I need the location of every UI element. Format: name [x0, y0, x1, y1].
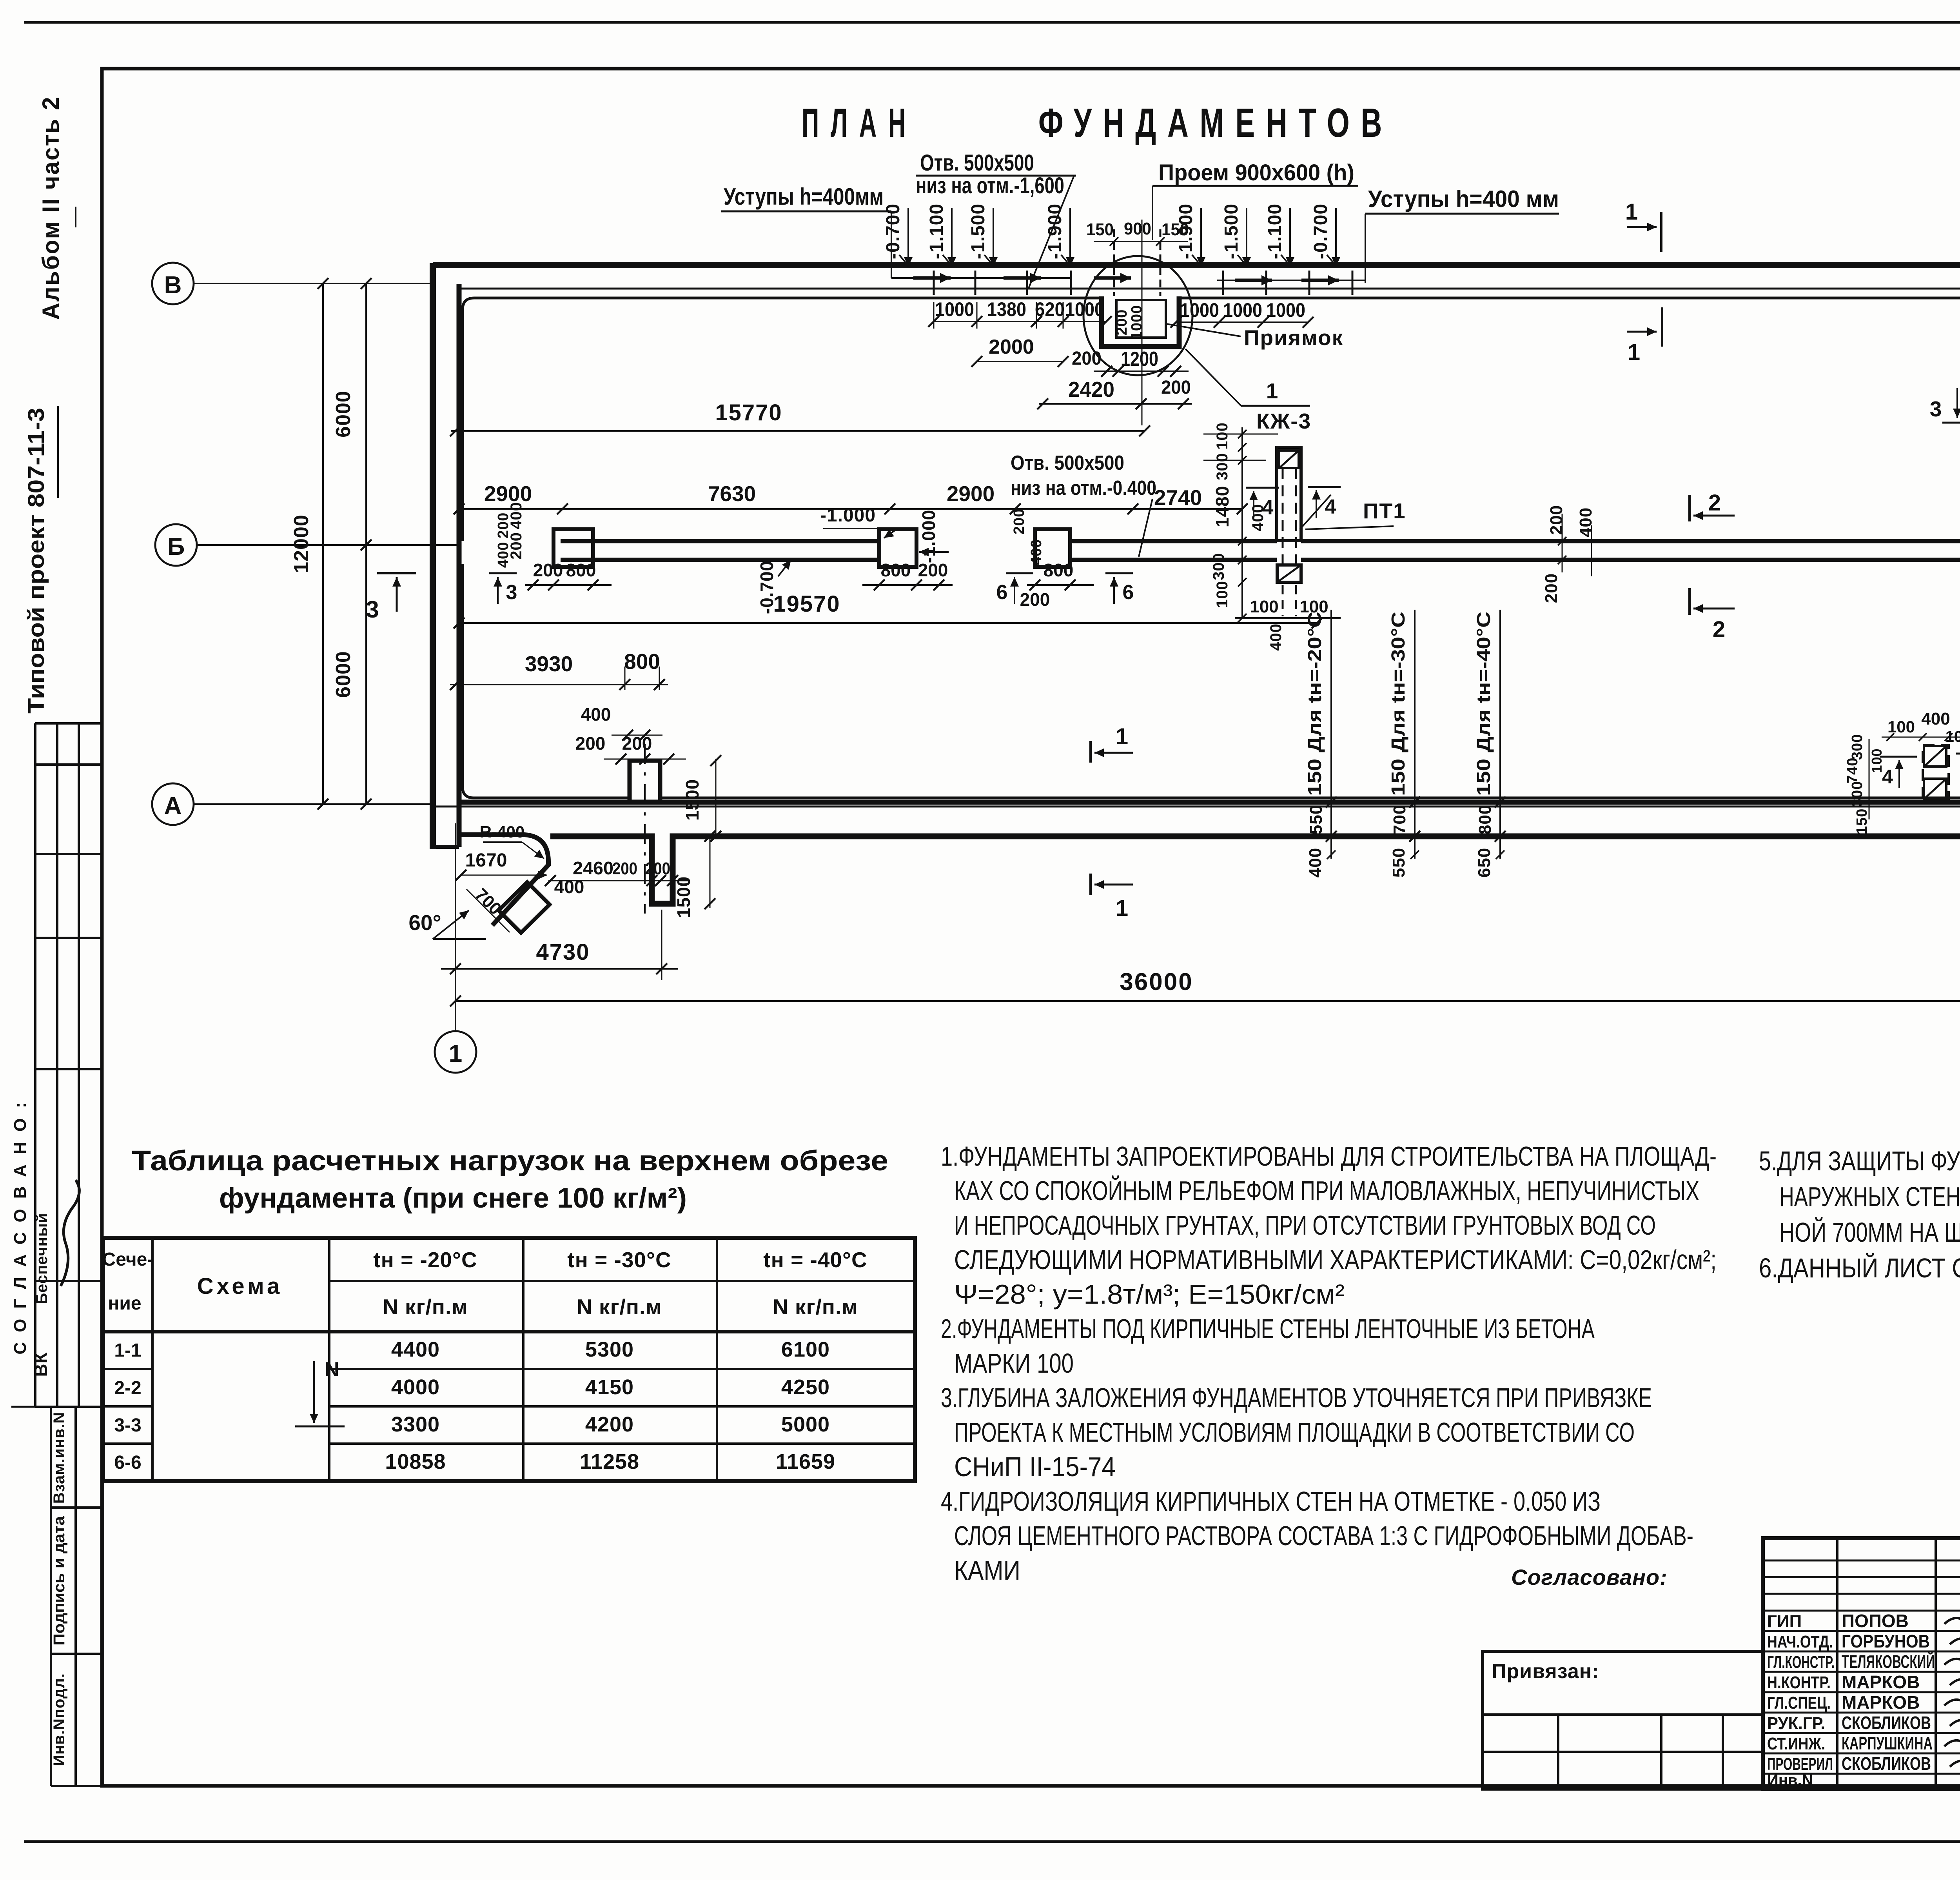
svg-text:150: 150 [1854, 808, 1870, 834]
svg-text:300: 300 [1849, 734, 1866, 760]
svg-text:СКОБЛИКОВ: СКОБЛИКОВ [1842, 1713, 1931, 1733]
svg-text:200: 200 [1542, 573, 1561, 603]
svg-text:1200: 1200 [1121, 348, 1158, 371]
svg-text:650: 650 [1475, 848, 1494, 877]
middle wall right T-block [879, 529, 916, 567]
svg-text:фундамента (при снеге 100 кг/: фундамента (при снеге 100 кг/м²) [219, 1182, 687, 1214]
svg-text:И НЕПРОСАДОЧНЫХ ГРУНТАХ, ПРИ О: И НЕПРОСАДОЧНЫХ ГРУНТАХ, ПРИ ОТСУТСТВИИ … [954, 1210, 1656, 1241]
svg-text:1480: 1480 [1212, 486, 1232, 527]
svg-text:-0.700: -0.700 [1310, 203, 1331, 259]
svg-text:6: 6 [1123, 581, 1134, 604]
left wall outer edge [430, 263, 436, 849]
table header lines [329, 1280, 915, 1282]
svg-text:100: 100 [1250, 597, 1278, 616]
axis leader lines [194, 283, 433, 284]
svg-text:А: А [164, 792, 182, 819]
svg-text:200: 200 [1020, 589, 1050, 610]
svg-text:3-3: 3-3 [114, 1415, 141, 1436]
dim 3930 800 [450, 684, 668, 685]
svg-text:tн = -20°С: tн = -20°С [373, 1248, 477, 1272]
svg-text:4400: 4400 [391, 1338, 440, 1361]
svg-text:700: 700 [1390, 805, 1409, 834]
svg-text:200: 200 [612, 859, 637, 878]
svg-text:150 Для tн=-30°С: 150 Для tн=-30°С [1388, 612, 1409, 796]
svg-text:400: 400 [495, 542, 512, 568]
title block top small rows [1763, 1560, 1960, 1562]
bottom wall thin outer line [433, 806, 1960, 808]
svg-text:Взам.инв.N: Взам.инв.N [51, 1412, 68, 1504]
section marks 1-1 bottom center [1089, 741, 1092, 763]
bottom foundation step outline with notch [550, 836, 1960, 904]
svg-text:2.ФУНДАМЕНТЫ ПОД КИРПИЧНЫЕ СТЕ: 2.ФУНДАМЕНТЫ ПОД КИРПИЧНЫЕ СТЕНЫ ЛЕНТОЧН… [941, 1313, 1595, 1344]
svg-text:200: 200 [645, 859, 670, 878]
title block staff rows [1763, 1610, 1960, 1612]
svg-text:Приямок: Приямок [1244, 325, 1343, 350]
svg-text:620: 620 [1035, 298, 1065, 320]
PT1 hatched square top [1279, 450, 1299, 468]
svg-text:СЛОЯ ЦЕМЕНТНОГО РАСТВОРА СОСТА: СЛОЯ ЦЕМЕНТНОГО РАСТВОРА СОСТАВА 1:3 С Г… [954, 1520, 1693, 1551]
svg-text:36000: 36000 [1120, 968, 1193, 995]
svg-text:2460: 2460 [573, 858, 613, 878]
svg-text:1670: 1670 [465, 850, 507, 871]
svg-text:300: 300 [1214, 453, 1231, 480]
svg-text:4200: 4200 [585, 1413, 634, 1436]
svg-text:400: 400 [1249, 504, 1267, 531]
svg-text:1380: 1380 [987, 298, 1026, 320]
svg-text:4150: 4150 [585, 1375, 634, 1399]
svg-text:Ψ=28°; у=1.8т/м³; Е=150кг/см: Ψ=28°; у=1.8т/м³; Е=150кг/см² [954, 1279, 1345, 1310]
svg-text:150: 150 [1161, 220, 1189, 239]
svg-text:Отв. 500х500: Отв. 500х500 [1011, 452, 1124, 474]
PT1 trench plate upper body [1277, 447, 1301, 541]
svg-text:Уступы h=400 мм: Уступы h=400 мм [1368, 186, 1559, 212]
svg-text:6000: 6000 [332, 391, 355, 438]
svg-text:200: 200 [1072, 348, 1102, 369]
dim line 36000 [456, 1000, 1960, 1002]
svg-text:tн = -30°С: tн = -30°С [567, 1248, 671, 1272]
svg-text:-1.000: -1.000 [820, 505, 876, 526]
svg-text:СТ.ИНЖ.: СТ.ИНЖ. [1767, 1734, 1825, 1753]
svg-text:Б: Б [167, 533, 185, 560]
svg-text:ГИП: ГИП [1767, 1612, 1802, 1631]
svg-text:4730: 4730 [536, 939, 590, 965]
svg-text:ФУНДАМЕНТОВ: ФУНДАМЕНТОВ [1038, 100, 1393, 146]
svg-text:Инв.Nподл.: Инв.Nподл. [51, 1673, 68, 1766]
svg-text:N кг/п.м: N кг/п.м [383, 1295, 468, 1319]
svg-text:15770: 15770 [715, 400, 782, 425]
signatures squiggles [1944, 1618, 1960, 1626]
sheet outer border top [24, 21, 1960, 24]
svg-text:ГЛ.КОНСТР.: ГЛ.КОНСТР. [1767, 1653, 1835, 1672]
svg-text:6000: 6000 [332, 651, 355, 698]
svg-text:1000: 1000 [1223, 299, 1262, 321]
svg-text:-1.100: -1.100 [1265, 203, 1285, 259]
svg-text:200: 200 [1161, 377, 1191, 398]
step tick marks on top wall [933, 271, 935, 295]
axis row V circle [152, 263, 194, 304]
entrance ramp outline [461, 835, 548, 925]
svg-text:низ на отм.-1,600: низ на отм.-1,600 [916, 173, 1064, 198]
svg-text:СКОБЛИКОВ: СКОБЛИКОВ [1842, 1753, 1931, 1774]
svg-text:11258: 11258 [580, 1450, 639, 1473]
svg-text:400: 400 [554, 877, 584, 897]
svg-text:60°: 60° [408, 910, 441, 935]
svg-text:Привязан:: Привязан: [1492, 1660, 1599, 1683]
svg-text:6.ДАННЫЙ ЛИСТ СМОТРИ СОВМЕСТНО: 6.ДАННЫЙ ЛИСТ СМОТРИ СОВМЕСТНО С ЛИСТОМ … [1759, 1252, 1960, 1283]
svg-text:ВК: ВК [31, 1352, 51, 1377]
svg-text:300: 300 [1210, 553, 1227, 580]
priyamok revision cloud circle [1083, 256, 1192, 375]
svg-text:900: 900 [1124, 219, 1151, 238]
svg-text:5000: 5000 [781, 1413, 830, 1436]
svg-text:Проем 900х600 (h): Проем 900х600 (h) [1158, 160, 1354, 185]
svg-text:Беспечный: Беспечный [33, 1213, 51, 1304]
svg-text:400: 400 [1576, 507, 1595, 537]
axis row A circle [152, 783, 194, 825]
svg-text:-1.100: -1.100 [926, 203, 947, 259]
svg-text:tн = -40°С: tн = -40°С [763, 1248, 867, 1272]
svg-text:200: 200 [1114, 309, 1130, 335]
PT1 left dim chain [1241, 427, 1243, 619]
entrance ramp pad (rotated) [499, 882, 550, 933]
svg-text:КЖ-3: КЖ-3 [1256, 409, 1311, 433]
svg-text:Н.КОНТР.: Н.КОНТР. [1767, 1673, 1831, 1692]
bottom wall thick line [459, 800, 1960, 805]
svg-text:N: N [325, 1358, 339, 1381]
dim row 2000 [977, 361, 1063, 362]
PT4 dashed element [1923, 745, 1949, 800]
svg-text:3: 3 [1930, 397, 1942, 421]
svg-text:В: В [164, 272, 182, 299]
svg-text:СНиП II-15-74: СНиП II-15-74 [954, 1451, 1116, 1482]
pit centerline [1142, 220, 1143, 425]
svg-text:N кг/п.м: N кг/п.м [773, 1295, 858, 1319]
svg-text:550: 550 [1389, 848, 1408, 877]
svg-text:Схема: Схема [197, 1273, 283, 1299]
svg-text:Сече-: Сече- [102, 1249, 154, 1270]
dim line 6000/6000 [365, 283, 367, 804]
title block verticals left part [1836, 1538, 1838, 1789]
dim 15770 [451, 430, 1145, 432]
dim line 4730 [441, 968, 678, 970]
svg-text:НАРУЖНЫХ СТЕН УСТРАИВАЕТСЯ АСФ: НАРУЖНЫХ СТЕН УСТРАИВАЕТСЯ АСФАЛЬТОВАЯ О… [1779, 1181, 1960, 1212]
PT1 dashed stubs below [1282, 585, 1284, 616]
svg-text:1000: 1000 [935, 298, 974, 320]
svg-text:12000: 12000 [290, 514, 313, 573]
sheet outer border bottom [24, 1840, 1960, 1843]
svg-text:1500: 1500 [682, 779, 702, 821]
svg-text:КАРПУШКИНА: КАРПУШКИНА [1842, 1733, 1933, 1753]
dim 19570 [459, 622, 1317, 624]
building top wall outer edge [433, 262, 1960, 268]
svg-text:ПЛАН: ПЛАН [802, 100, 917, 146]
svg-text:6-6: 6-6 [114, 1452, 141, 1473]
svg-text:МАРКОВ: МАРКОВ [1842, 1692, 1920, 1713]
bottom wall inner thin line (lower room) [463, 564, 630, 798]
svg-text:Подпись и дата: Подпись и дата [51, 1516, 68, 1646]
door opening jamb dashes [1113, 229, 1115, 296]
privyazan box [1483, 1651, 1763, 1789]
left lower stamp strip [50, 1407, 52, 1786]
svg-text:1000: 1000 [1129, 305, 1145, 340]
dim line 12000 [322, 283, 324, 804]
middle wall strip segment B top edge [1069, 539, 1277, 543]
svg-text:4000: 4000 [391, 1375, 440, 1399]
svg-text:1000: 1000 [1065, 298, 1104, 320]
section marks 6 [1006, 572, 1033, 574]
svg-text:6: 6 [996, 581, 1008, 604]
svg-text:1000: 1000 [1266, 299, 1305, 321]
priyamok inner rect [1116, 300, 1166, 338]
svg-text:200: 200 [575, 733, 606, 754]
svg-text:СЛЕДУЮЩИМИ НОРМАТИВНЫМИ ХАРАКТ: СЛЕДУЮЩИМИ НОРМАТИВНЫМИ ХАРАКТЕРИСТИКАМИ… [954, 1244, 1717, 1275]
underline of vertical texts [57, 406, 59, 498]
left wall foundation end stub [430, 845, 459, 849]
svg-text:1.ФУНДАМЕНТЫ ЗАПРОЕКТИРОВАНЫ Д: 1.ФУНДАМЕНТЫ ЗАПРОЕКТИРОВАНЫ ДЛЯ СТРОИТЕ… [941, 1141, 1717, 1172]
svg-text:Альбом II часть 2: Альбом II часть 2 [38, 96, 64, 320]
title block outer [1763, 1538, 1960, 1789]
svg-text:1: 1 [449, 1040, 462, 1067]
svg-text:1500: 1500 [673, 876, 694, 918]
svg-text:ПОПОВ: ПОПОВ [1842, 1611, 1909, 1631]
svg-text:400: 400 [1921, 709, 1950, 728]
middle wall left T-block [554, 529, 593, 567]
svg-text:ние: ние [108, 1293, 141, 1314]
building top wall inner edge (upper room), gap at pit [463, 298, 1102, 541]
svg-text:Таблица расчетных нагрузок на: Таблица расчетных нагрузок на верхнем об… [132, 1145, 888, 1177]
svg-text:РУК.ГР.: РУК.ГР. [1767, 1714, 1825, 1733]
svg-text:ПРОЕКТА К МЕСТНЫМ УСЛОВИЯМ ПЛО: ПРОЕКТА К МЕСТНЫМ УСЛОВИЯМ ПЛОЩАДКИ В СО… [954, 1417, 1635, 1448]
svg-text:Отв. 500х500: Отв. 500х500 [920, 150, 1034, 176]
svg-text:1000: 1000 [1180, 299, 1219, 321]
svg-text:100: 100 [1869, 748, 1885, 773]
PT1 dashed sides through wall [1282, 468, 1284, 565]
middle wall strip segment C bottom edge [1301, 558, 1960, 562]
svg-text:550: 550 [1307, 805, 1326, 834]
svg-text:МАРКОВ: МАРКОВ [1842, 1672, 1920, 1692]
table row lines [103, 1368, 152, 1370]
svg-text:Инв.N: Инв.N [1767, 1772, 1813, 1789]
svg-text:2: 2 [1708, 490, 1721, 516]
svg-text:Уступы h=400мм: Уступы h=400мм [724, 183, 884, 210]
pier centerline dash [644, 744, 646, 914]
svg-text:Согласовано:: Согласовано: [1511, 1565, 1668, 1589]
svg-text:800: 800 [624, 649, 660, 674]
dim row 1000/1380/620/1000 and 1000/1000/1000 [934, 321, 1106, 322]
svg-text:300: 300 [1849, 781, 1866, 807]
svg-text:10858: 10858 [385, 1450, 446, 1473]
svg-text:200: 200 [533, 560, 563, 580]
svg-text:4250: 4250 [781, 1375, 830, 1399]
svg-text:R-400: R-400 [480, 823, 524, 841]
svg-text:-1.900: -1.900 [1045, 203, 1065, 259]
svg-text:2: 2 [1713, 617, 1725, 642]
svg-text:3: 3 [506, 581, 517, 604]
middle wall strip segment A bottom edge [561, 558, 881, 562]
PT1 lower block [1277, 565, 1301, 582]
svg-text:ТЕЛЯКОВСКИЙ: ТЕЛЯКОВСКИЙ [1842, 1651, 1935, 1672]
svg-text:2-2: 2-2 [114, 1378, 141, 1399]
middle wall strip segment B bottom edge [1069, 558, 1277, 562]
svg-text:N кг/п.м: N кг/п.м [577, 1295, 662, 1319]
svg-text:4.ГИДРОИЗОЛЯЦИЯ КИРПИЧНЫХ СТЕН: 4.ГИДРОИЗОЛЯЦИЯ КИРПИЧНЫХ СТЕН НА ОТМЕТК… [941, 1486, 1601, 1517]
svg-text:-1.500: -1.500 [968, 203, 989, 259]
svg-text:800: 800 [881, 560, 911, 580]
section marks 4 at PT1 [1246, 487, 1279, 489]
svg-text:НАЧ.ОТД.: НАЧ.ОТД. [1767, 1632, 1833, 1651]
svg-text:1: 1 [1625, 199, 1638, 225]
svg-text:2000: 2000 [989, 336, 1034, 358]
svg-text:19570: 19570 [773, 591, 840, 617]
svg-text:100: 100 [1214, 581, 1231, 608]
middle wall strip segment A top edge [561, 539, 881, 543]
svg-text:400: 400 [1028, 539, 1045, 565]
svg-text:2420: 2420 [1068, 377, 1114, 401]
section mark 3 arrow left of T-block [489, 572, 517, 574]
svg-text:3: 3 [366, 596, 379, 623]
svg-text:2900: 2900 [947, 481, 995, 506]
svg-text:400: 400 [1267, 623, 1285, 651]
axis 1 circle [435, 1031, 476, 1073]
left upper stamp strip [34, 723, 36, 1407]
dim row 2900 7630 2900 2740 [459, 508, 1242, 510]
dim row 2420 / 200 [1039, 403, 1192, 405]
svg-text:МАРКИ 100: МАРКИ 100 [954, 1348, 1074, 1379]
dim row 200 1200 (pit) [1094, 371, 1189, 372]
svg-text:7630: 7630 [708, 481, 756, 506]
svg-text:200: 200 [495, 512, 512, 538]
svg-text:КАХ СО СПОКОЙНЫМ РЕЛЬЕФОМ ПРИ: КАХ СО СПОКОЙНЫМ РЕЛЬЕФОМ ПРИ МАЛОВЛАЖНЫ… [954, 1175, 1699, 1206]
svg-text:1: 1 [1116, 895, 1128, 921]
svg-text:ПТ1: ПТ1 [1363, 499, 1406, 523]
svg-text:-0.700: -0.700 [883, 203, 904, 259]
svg-text:5.ДЛЯ ЗАЩИТЫ ФУНДАМЕНТОВ ОТ ПО: 5.ДЛЯ ЗАЩИТЫ ФУНДАМЕНТОВ ОТ ПОВЕРХНОСТНЫ… [1759, 1146, 1960, 1176]
middle wall C-block (6-6) [1035, 529, 1070, 567]
section mark 3 left [377, 572, 416, 574]
svg-text:150 Для tн=-40°С: 150 Для tн=-40°С [1474, 612, 1494, 796]
svg-text:Типовой проект 807-11-3: Типовой проект 807-11-3 [24, 408, 49, 714]
bottom wall pier [630, 761, 660, 802]
svg-text:200: 200 [1011, 509, 1027, 534]
svg-text:3.ГЛУБИНА ЗАЛОЖЕНИЯ ФУНДАМЕНТО: 3.ГЛУБИНА ЗАЛОЖЕНИЯ ФУНДАМЕНТОВ УТОЧНЯЕТ… [941, 1382, 1652, 1413]
svg-text:200: 200 [1547, 505, 1566, 535]
axis row B circle [155, 524, 197, 566]
svg-text:ГЛ.СПЕЦ.: ГЛ.СПЕЦ. [1767, 1693, 1831, 1713]
svg-text:3930: 3930 [525, 652, 573, 676]
svg-text:-1.500: -1.500 [1221, 203, 1242, 259]
signature squiggle [61, 1180, 79, 1286]
table schema arrow N [313, 1361, 315, 1423]
svg-text:200: 200 [918, 560, 948, 580]
svg-text:150: 150 [1086, 220, 1114, 239]
axis 1 line [455, 823, 456, 1031]
svg-text:2740: 2740 [1154, 485, 1202, 510]
svg-text:400: 400 [1306, 848, 1325, 877]
svg-text:1-1: 1-1 [114, 1340, 141, 1361]
priyamok pit outline [1102, 296, 1179, 347]
table frame [103, 1238, 915, 1481]
svg-text:150 Для tн=-20°С: 150 Для tн=-20°С [1305, 612, 1325, 796]
svg-text:ГОРБУНОВ: ГОРБУНОВ [1842, 1631, 1930, 1651]
svg-text:100: 100 [1887, 717, 1915, 736]
building top wall middle step line [459, 288, 1960, 290]
svg-text:800: 800 [566, 560, 596, 580]
svg-text:11659: 11659 [776, 1450, 835, 1473]
svg-text:СОГЛАСОВАНО:: СОГЛАСОВАНО: [11, 1092, 30, 1354]
svg-text:1: 1 [1116, 724, 1128, 749]
left wall inner edge [457, 284, 462, 847]
ustupy bracket lines with arrows [891, 277, 1071, 279]
middle wall strip segment C top edge [1301, 539, 1960, 543]
svg-text:1: 1 [1628, 340, 1640, 365]
svg-text:1: 1 [1266, 379, 1278, 403]
svg-text:100: 100 [1214, 422, 1231, 450]
svg-text:800: 800 [1044, 560, 1074, 580]
svg-text:низ на отм.-0.400: низ на отм.-0.400 [1011, 477, 1156, 500]
svg-text:6100: 6100 [781, 1338, 830, 1361]
svg-text:ПРОВЕРИЛ: ПРОВЕРИЛ [1767, 1755, 1833, 1774]
svg-text:200: 200 [622, 733, 652, 754]
svg-text:5300: 5300 [585, 1338, 634, 1361]
frost depth lines for tn -20 -30 -40 [1330, 610, 1332, 859]
svg-text:400: 400 [581, 704, 611, 725]
svg-text:КАМИ: КАМИ [954, 1555, 1020, 1586]
svg-text:740: 740 [1844, 757, 1861, 783]
svg-text:800: 800 [1475, 805, 1495, 834]
svg-text:3300: 3300 [391, 1413, 440, 1436]
svg-text:НОЙ 700ММ НА ЩЕБЕНОЧНОМ ОСНОВА: НОЙ 700ММ НА ЩЕБЕНОЧНОМ ОСНОВАНИИ ТОЛЩИН… [1779, 1217, 1960, 1248]
section marks 4 bottom [1880, 756, 1917, 758]
